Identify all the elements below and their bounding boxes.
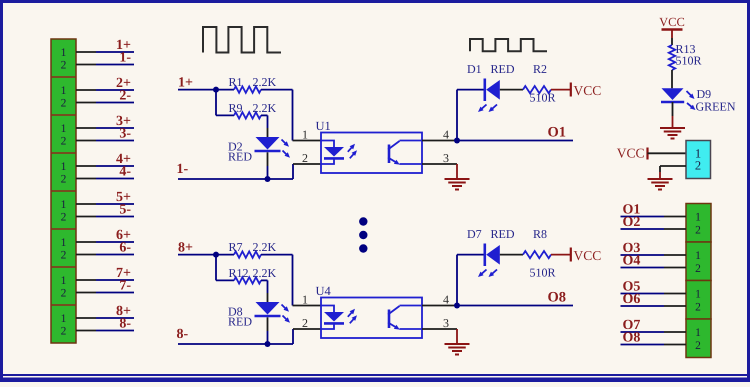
svg-text:1: 1 xyxy=(61,237,67,249)
wire pin 1- from J1 xyxy=(76,64,134,66)
wire pin 5+ from J1 xyxy=(76,203,134,205)
svg-text:3: 3 xyxy=(443,151,449,165)
wire header pin2 to ground xyxy=(660,166,686,172)
svg-text:VCC: VCC xyxy=(574,248,602,263)
svg-text:1: 1 xyxy=(695,212,701,224)
svg-text:U1: U1 xyxy=(316,119,331,133)
connector output block 4 (O7/O8) xyxy=(686,319,711,358)
wire net O6 xyxy=(621,305,687,307)
svg-text:3: 3 xyxy=(443,316,449,330)
wire pin 8+ from J1 xyxy=(76,317,134,319)
svg-text:6-: 6- xyxy=(119,240,131,255)
wire net O4 xyxy=(621,267,687,269)
wire net O2 xyxy=(621,228,687,230)
resistor R8 510R xyxy=(500,251,570,258)
svg-text:3-: 3- xyxy=(119,126,131,141)
wire pin 7- from J1 xyxy=(76,292,134,294)
ground at pin3 xyxy=(445,329,470,355)
wire pin 6+ from J1 xyxy=(76,241,134,243)
wire pin 4+ from J1 xyxy=(76,165,134,167)
svg-text:1: 1 xyxy=(61,161,67,173)
connector P1 2-pin header (cyan) xyxy=(686,141,711,179)
svg-text:4: 4 xyxy=(443,292,449,306)
svg-text:D1: D1 xyxy=(467,62,482,76)
optocoupler U1 xyxy=(321,133,422,174)
svg-text:2.2K: 2.2K xyxy=(253,75,277,89)
wire LED cathode to minus rail xyxy=(267,152,269,166)
svg-text:RED: RED xyxy=(491,227,515,241)
svg-text:O2: O2 xyxy=(623,215,641,230)
ground at pin3 xyxy=(445,164,470,190)
svg-text:VCC: VCC xyxy=(574,83,602,98)
svg-text:2: 2 xyxy=(61,174,67,186)
LED D2 RED xyxy=(255,115,291,157)
wire to pin1 xyxy=(293,255,322,306)
LED D7 RED xyxy=(457,244,500,278)
wire pin4 stub xyxy=(422,305,456,307)
svg-text:2: 2 xyxy=(695,158,701,172)
svg-text:1: 1 xyxy=(61,85,67,97)
svg-text:7-: 7- xyxy=(119,278,131,293)
svg-text:2: 2 xyxy=(61,212,67,224)
svg-text:R7: R7 xyxy=(229,240,243,254)
svg-text:O4: O4 xyxy=(623,254,641,269)
svg-text:4-: 4- xyxy=(119,164,131,179)
svg-text:8-: 8- xyxy=(119,316,131,331)
svg-text:R8: R8 xyxy=(533,227,547,241)
svg-text:2: 2 xyxy=(61,250,67,262)
power port VCC top-right xyxy=(659,15,685,45)
svg-text:1-: 1- xyxy=(177,162,189,177)
svg-text:O1: O1 xyxy=(548,124,567,140)
wire pin 2+ from J1 xyxy=(76,89,134,91)
svg-text:8-: 8- xyxy=(177,327,189,342)
wire pin 6- from J1 xyxy=(76,254,134,256)
junction node xyxy=(265,341,271,347)
svg-text:510R: 510R xyxy=(530,91,556,105)
wire pin 1+ from J1 xyxy=(76,51,134,53)
resistor R9 2.2K xyxy=(216,90,268,119)
svg-text:R1: R1 xyxy=(229,75,243,89)
wire pin4 stub xyxy=(422,140,456,142)
wire pin3 stub xyxy=(422,328,457,330)
svg-text:1: 1 xyxy=(61,313,67,325)
svg-text:2: 2 xyxy=(695,224,701,236)
resistor R1 2.2K xyxy=(216,86,293,92)
svg-text:R9: R9 xyxy=(229,101,243,115)
svg-text:1: 1 xyxy=(61,275,67,287)
svg-text:1: 1 xyxy=(695,250,701,262)
junction node xyxy=(213,252,219,258)
wire pin4 up to LED row xyxy=(456,90,458,141)
output waveform annotation (square wave) xyxy=(470,39,547,51)
svg-text:2: 2 xyxy=(302,151,308,165)
wire net O8 xyxy=(457,305,573,307)
svg-text:1: 1 xyxy=(61,47,67,59)
wire pin 2- from J1 xyxy=(76,102,134,104)
wire pin3 stub xyxy=(422,163,457,165)
wire net O7 xyxy=(621,331,687,333)
wire VCC to header pin1 xyxy=(648,152,687,154)
svg-text:U4: U4 xyxy=(316,284,332,298)
svg-text:R2: R2 xyxy=(533,62,547,76)
wire pin 8- from J1 xyxy=(76,330,134,332)
svg-text:GREEN: GREEN xyxy=(696,100,736,114)
wire pin 5- from J1 xyxy=(76,216,134,218)
junction node xyxy=(213,87,219,93)
svg-text:1: 1 xyxy=(695,289,701,301)
wire pin 4- from J1 xyxy=(76,178,134,180)
wire xyxy=(178,89,216,91)
svg-text:510R: 510R xyxy=(530,266,556,280)
LED D8 RED xyxy=(255,280,291,322)
junction node pin4 xyxy=(454,303,460,309)
svg-text:R12: R12 xyxy=(229,266,249,280)
junction node xyxy=(265,176,271,182)
svg-text:2: 2 xyxy=(695,263,701,275)
wire pin 3- from J1 xyxy=(76,140,134,142)
svg-text:1: 1 xyxy=(302,127,308,141)
svg-text:2.2K: 2.2K xyxy=(253,240,277,254)
svg-text:O8: O8 xyxy=(548,289,567,305)
svg-text:510R: 510R xyxy=(676,54,702,68)
wire pin 3+ from J1 xyxy=(76,127,134,129)
connector J1 left 16-pin terminal block xyxy=(51,39,76,343)
ground below D9 xyxy=(660,116,685,139)
svg-text:2: 2 xyxy=(61,98,67,110)
svg-text:O6: O6 xyxy=(623,292,641,307)
power port VCC xyxy=(571,248,601,264)
resistor R12 2.2K xyxy=(216,255,268,284)
wire xyxy=(178,254,216,256)
svg-text:2: 2 xyxy=(302,316,308,330)
svg-text:RED: RED xyxy=(491,62,515,76)
resistor R13 510R xyxy=(669,45,675,88)
svg-text:2: 2 xyxy=(61,326,67,338)
connector output block 1 (O1/O2) xyxy=(686,204,711,243)
ground below header pin2 xyxy=(648,172,673,190)
svg-text:1: 1 xyxy=(61,199,67,211)
svg-text:1+: 1+ xyxy=(178,76,193,91)
wire net O5 xyxy=(621,293,687,295)
continuation dots xyxy=(359,217,367,252)
svg-text:D7: D7 xyxy=(467,227,482,241)
LED D1 RED xyxy=(457,79,500,113)
wire LED cathode to minus rail xyxy=(267,317,269,331)
wire net O3 xyxy=(621,254,687,256)
svg-text:5-: 5- xyxy=(119,202,131,217)
svg-text:VCC: VCC xyxy=(617,146,645,161)
svg-text:2: 2 xyxy=(695,340,701,352)
input waveform annotation (square wave) xyxy=(203,27,281,53)
svg-text:1: 1 xyxy=(695,327,701,339)
svg-text:1: 1 xyxy=(61,123,67,135)
wire minus rail xyxy=(178,329,321,344)
power port VCC xyxy=(571,83,601,99)
wire D9 cathode down xyxy=(672,102,674,116)
wire net O1 xyxy=(457,140,573,142)
wire minus rail xyxy=(178,164,321,179)
LED D9 GREEN xyxy=(661,88,696,110)
svg-text:2-: 2- xyxy=(119,88,131,103)
svg-text:2.2K: 2.2K xyxy=(253,266,277,280)
connector output block 2 (O3/O4) xyxy=(686,242,711,281)
svg-text:1: 1 xyxy=(302,292,308,306)
svg-text:1-: 1- xyxy=(119,50,131,65)
resistor R7 2.2K xyxy=(216,251,293,257)
svg-text:O8: O8 xyxy=(623,331,641,346)
wire to pin1 xyxy=(293,90,322,141)
svg-text:VCC: VCC xyxy=(659,15,685,29)
svg-text:RED: RED xyxy=(228,315,252,329)
power port VCC mid-right xyxy=(617,146,648,161)
svg-text:2: 2 xyxy=(61,60,67,72)
wire pin 7+ from J1 xyxy=(76,279,134,281)
svg-text:8+: 8+ xyxy=(178,241,193,256)
wire net O1 xyxy=(621,216,687,218)
svg-text:2: 2 xyxy=(695,301,701,313)
svg-text:2.2K: 2.2K xyxy=(253,101,277,115)
wire net O8 xyxy=(621,344,687,346)
svg-text:4: 4 xyxy=(443,127,449,141)
optocoupler U4 xyxy=(321,298,422,339)
svg-text:RED: RED xyxy=(228,150,252,164)
connector output block 3 (O5/O6) xyxy=(686,281,711,320)
junction node pin4 xyxy=(454,138,460,144)
resistor R2 510R xyxy=(500,86,570,93)
svg-text:2: 2 xyxy=(61,136,67,148)
svg-text:2: 2 xyxy=(61,288,67,300)
wire pin4 up to LED row xyxy=(456,255,458,306)
